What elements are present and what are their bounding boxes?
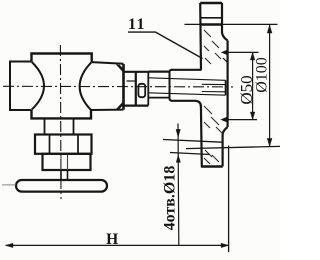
nipple bottom edge bbox=[148, 97, 169, 99]
H right ext line bbox=[228, 146, 230, 253]
hub bottom chamfer bbox=[223, 127, 228, 134]
holes leader line bbox=[177, 124, 180, 246]
D50 bottom wall arrow bbox=[221, 117, 228, 122]
union hatched corner bottom bbox=[117, 102, 124, 109]
flange plate right edge lower bbox=[222, 134, 224, 167]
valve body cap bbox=[32, 54, 92, 63]
left pipe stub bbox=[10, 62, 32, 111]
hatching web upper bbox=[204, 30, 221, 64]
D50 arrow down bbox=[250, 112, 255, 120]
top stub collar line bbox=[200, 17, 222, 19]
bore inner mid lines bbox=[202, 84, 226, 92]
flange hub top thick edge bbox=[200, 23, 222, 25]
D50 arrow up bbox=[250, 52, 255, 60]
nipple thread line lower bbox=[149, 93, 226, 95]
bore end face bbox=[225, 80, 227, 95]
socket top edge bbox=[171, 69, 202, 71]
tee flange web left edge upper bbox=[199, 3, 202, 70]
stem through gland bbox=[61, 155, 68, 170]
valve body right curve bbox=[80, 62, 92, 110]
top stub right edge bbox=[221, 3, 223, 33]
centerline horizontal axis bbox=[3, 85, 233, 88]
nipple thread line upper bbox=[149, 78, 226, 81]
stem bbox=[61, 170, 68, 180]
dim ext line bottom (flange bottom face) bbox=[186, 146, 280, 148]
right pipe stub bbox=[91, 62, 124, 110]
hex nut bbox=[35, 135, 92, 154]
union nut inner line bbox=[127, 80, 136, 82]
bolt hole line upper bbox=[163, 140, 222, 143]
H arrow left bbox=[6, 243, 14, 247]
hub top chamfer bbox=[222, 33, 228, 41]
bonnet neck bbox=[45, 118, 74, 134]
hex nut facets bbox=[50, 135, 79, 154]
centerline vertical valve axis bbox=[59, 45, 62, 199]
top stub top edge bbox=[200, 2, 222, 4]
handwheel bbox=[16, 180, 107, 192]
nipple top edge bbox=[148, 70, 170, 72]
slot piece right edge bbox=[147, 72, 149, 106]
H arrow right bbox=[221, 243, 229, 247]
socket bell bbox=[170, 70, 173, 101]
holes leader arrow up bbox=[176, 155, 180, 162]
hatching web lower bbox=[204, 106, 222, 133]
D50 top tail bbox=[228, 51, 259, 53]
holes leader arrow down bbox=[176, 129, 180, 137]
flange boss face bbox=[227, 41, 229, 128]
svg-text:4отв.Ø18: 4отв.Ø18 bbox=[162, 166, 179, 231]
svg-text:H: H bbox=[106, 231, 118, 248]
valve body bottom bbox=[32, 110, 92, 118]
hatching bottom stub bbox=[204, 150, 219, 164]
dim line D100 bbox=[269, 25, 271, 146]
H dim line bbox=[6, 244, 229, 246]
D50 top wall arrow bbox=[221, 50, 228, 55]
gland band bbox=[43, 154, 91, 170]
D100 arrow down bbox=[267, 138, 272, 146]
svg-text:11: 11 bbox=[128, 16, 146, 33]
D100 arrow up bbox=[267, 25, 272, 33]
union nut bbox=[124, 72, 149, 106]
slot bbox=[138, 84, 145, 97]
union hatched corner top bbox=[117, 64, 124, 72]
flange plate bottom edge bbox=[201, 165, 223, 167]
tee flange web left edge lower bbox=[200, 105, 203, 167]
valve body left curve bbox=[32, 62, 44, 110]
hatching boss bbox=[223, 58, 227, 62]
socket bottom edge with fillet bbox=[171, 101, 201, 107]
right pipe end face bbox=[122, 64, 125, 110]
bolt hole line lower bbox=[170, 153, 210, 155]
label 11 leader bbox=[128, 32, 203, 58]
dim ext line top (flange top face) bbox=[185, 23, 278, 25]
dim line D50 bbox=[252, 52, 254, 119]
handwheel axis faint bbox=[2, 184, 16, 186]
svg-text:Ø100: Ø100 bbox=[254, 57, 271, 93]
D50 bottom tail bbox=[228, 119, 257, 121]
